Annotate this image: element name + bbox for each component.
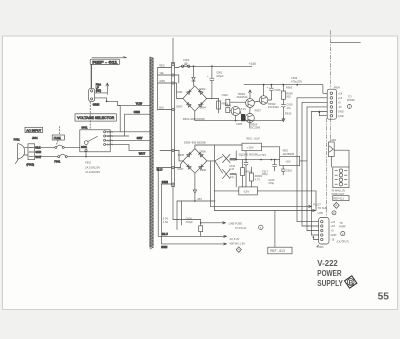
svg-text:GND: GND: [331, 233, 337, 237]
svg-text:D901: D901: [176, 90, 183, 94]
svg-text:AC 6.3V: AC 6.3V: [230, 237, 240, 241]
regulator +5V: [280, 149, 300, 166]
svg-text:2A: 2A: [184, 61, 187, 65]
svg-text:TO: TO: [339, 221, 343, 225]
svg-text:C906: C906: [274, 88, 281, 92]
svg-text:PWR UNIT: PWR UNIT: [332, 192, 345, 196]
title V-222: [317, 259, 343, 288]
svg-text:D901~904 (W02M): D901~904 (W02M): [183, 117, 205, 121]
wire below bus down: [172, 187, 174, 220]
svg-text:2SA564A: 2SA564A: [237, 95, 248, 99]
X outputs: [230, 151, 236, 159]
series regulator R901/C902: [217, 93, 229, 113]
AC plug: [18, 144, 25, 159]
svg-text:REF - 611: REF - 611: [92, 61, 117, 65]
svg-text:8.2V: 8.2V: [241, 107, 247, 111]
transistor interconnect wires: [254, 101, 259, 102]
wire YLW to transformer: [107, 101, 150, 105]
svg-text:AC INPUT: AC INPUT: [26, 128, 41, 132]
svg-text:BRN: BRN: [161, 245, 167, 249]
svg-text:+15: +15: [331, 224, 336, 228]
svg-text:+4 TP1: +4 TP1: [258, 153, 267, 157]
svg-text:R910: R910: [285, 111, 292, 115]
svg-text:BRN: BRN: [162, 180, 168, 184]
bridge1 output right: [207, 98, 219, 100]
svg-text:2SC634A: 2SC634A: [268, 105, 279, 109]
svg-text:C901: C901: [216, 70, 223, 74]
transformer T901 primary winding: [150, 57, 153, 249]
selector switch S901 box: [80, 126, 110, 152]
chassis chain line right column: [330, 118, 332, 142]
svg-text:D906: D906: [200, 149, 207, 153]
svg-text:D905~908 (W02M): D905~908 (W02M): [184, 141, 206, 145]
svg-text:R906: R906: [225, 103, 232, 107]
heater feed wires right: [211, 205, 312, 207]
svg-text:TO SUB: TO SUB: [318, 206, 328, 210]
wires transformer to bridge2: [175, 151, 184, 161]
svg-text:820: 820: [286, 95, 291, 99]
dashed wire lamp to selector switch: [89, 102, 91, 130]
svg-text:F904: F904: [330, 138, 336, 142]
svg-text:YLW: YLW: [136, 102, 143, 106]
svg-text:470µ/25V: 470µ/25V: [291, 80, 302, 84]
svg-text:GND: GND: [338, 110, 344, 114]
svg-text:C902: C902: [222, 93, 229, 97]
capacitor C901: [207, 66, 224, 98]
svg-text:TO PLUG: TO PLUG: [235, 226, 246, 230]
staircase wires switch to transformer: [106, 106, 150, 132]
svg-text:400 WV 1.5A: 400 WV 1.5A: [230, 241, 246, 245]
wire plug to fuse2: [35, 156, 58, 158]
resistor R902: [226, 99, 246, 105]
riser into switch bottom: [85, 152, 87, 157]
svg-text:55: 55: [378, 292, 390, 303]
resistor R908: [281, 85, 293, 100]
svg-text:C916: C916: [286, 168, 293, 172]
svg-text:REG. +15V: REG. +15V: [246, 136, 259, 140]
extra reg labels: [229, 152, 268, 176]
svg-text:YEL: YEL: [159, 71, 164, 75]
REF-611 box: [90, 59, 119, 64]
svg-text:BLK: BLK: [159, 105, 164, 109]
circled a: [259, 225, 263, 229]
svg-text:-26V: -26V: [197, 197, 203, 201]
svg-text:V-222: V-222: [317, 259, 338, 268]
wire bundle verticals: [296, 98, 298, 222]
svg-text:FUSE: FUSE: [54, 136, 61, 140]
capacitor C910: [281, 99, 293, 117]
capacitor C912: [229, 151, 248, 187]
svg-text:2SC1096: 2SC1096: [249, 126, 260, 130]
svg-text:PILOT: PILOT: [313, 202, 321, 206]
svg-text:(PWR): (PWR): [347, 98, 355, 102]
bridge rectifier D901-D904: [176, 86, 206, 111]
wire fuse2 to transformer primary bottom: [67, 156, 150, 158]
svg-text:POWER: POWER: [317, 269, 341, 278]
extra labels: [236, 107, 261, 126]
capacitor C903 dark: [241, 114, 245, 121]
svg-text:PWR: PWR: [339, 224, 345, 228]
svg-text:47µ: 47µ: [230, 175, 235, 179]
transistor TR904: [245, 114, 260, 130]
secondary bus / connector J902: [172, 38, 175, 186]
svg-text:+24V: +24V: [249, 62, 257, 66]
VOLTAGE SELECTOR label box: [75, 114, 116, 121]
+15 bus: [230, 159, 280, 161]
note LINE FUSE: [229, 221, 247, 230]
svg-text:GRN: GRN: [93, 102, 100, 106]
note AC 6.3V: [230, 237, 246, 245]
svg-text:B: B: [349, 279, 354, 286]
svg-text:(OUTPUT): (OUTPUT): [337, 239, 350, 243]
AC INPUT label box: [25, 127, 43, 132]
svg-text:1A 220/240V: 1A 220/240V: [85, 170, 100, 174]
svg-text:(NE): (NE): [96, 89, 101, 93]
svg-text:D908: D908: [200, 168, 207, 172]
svg-text:GRY: GRY: [137, 136, 143, 140]
ground arrow: [282, 117, 285, 122]
svg-text:470µ: 470µ: [268, 181, 274, 185]
bridge rectifier D905-D908: [177, 141, 207, 174]
chassis chain line top: [330, 31, 332, 89]
P904 pin wires: [297, 98, 327, 112]
svg-text:SUPPLY: SUPPLY: [317, 279, 343, 288]
wire from REF-611 down to pilot lamp: [90, 65, 92, 89]
P904 pin labels: [338, 91, 355, 117]
svg-text:+24: +24: [331, 220, 336, 224]
REF-613 box: [268, 211, 292, 254]
fuse F901b: [54, 154, 67, 163]
svg-text:P904: P904: [334, 85, 341, 89]
svg-text:AN78M05: AN78M05: [283, 152, 295, 156]
fuse F902: [173, 220, 203, 237]
svg-text:D904: D904: [200, 105, 207, 109]
svg-text:P: P: [335, 204, 337, 208]
wires fuse to battery: [331, 150, 349, 167]
C924 label: [286, 76, 302, 89]
capacitor C913: [230, 172, 237, 179]
svg-text:2A 100/120V: 2A 100/120V: [85, 165, 100, 169]
+15 out wire: [262, 147, 280, 157]
leader arrow from REF-611: [92, 57, 127, 58]
battery note: [332, 189, 346, 196]
bridge1 bottom + label: [194, 111, 196, 116]
battery holder: [333, 167, 349, 188]
node dot: [106, 101, 108, 103]
ground jog to pin6: [319, 111, 327, 116]
svg-text:+5V: +5V: [285, 160, 290, 164]
svg-text:+15V: +15V: [247, 146, 254, 150]
svg-text:WHT: WHT: [139, 152, 146, 156]
svg-text:H: H: [238, 249, 240, 252]
zener ZD901: [250, 167, 263, 187]
node on rail: [193, 65, 195, 67]
svg-text:470µF: 470µF: [185, 220, 193, 224]
transistor TR902: [259, 96, 279, 109]
svg-text:D903: D903: [176, 105, 183, 109]
svg-text:RED: RED: [159, 63, 165, 67]
tap color labels: [159, 63, 165, 109]
svg-text:-15V: -15V: [243, 190, 249, 194]
svg-text:GRN: GRN: [35, 150, 41, 154]
svg-text:D902: D902: [199, 87, 206, 91]
svg-text:J904: J904: [32, 136, 38, 140]
svg-text:TO: TO: [348, 95, 352, 99]
svg-text:0.47: 0.47: [229, 167, 235, 171]
svg-text:BLU: BLU: [162, 232, 168, 236]
regulator +15V: [242, 136, 262, 150]
svg-text:LINE FUSE: LINE FUSE: [229, 221, 243, 225]
page sheet: [3, 36, 398, 310]
-15V reg wires: [214, 191, 316, 211]
pilot feed labels: [313, 202, 327, 214]
svg-text:100µF: 100µF: [216, 74, 224, 78]
wire BLU down to heater line: [158, 168, 226, 238]
transformer secondary left line: [157, 68, 159, 111]
circled b: [332, 211, 336, 215]
wire plug to fuse1: [35, 146, 55, 148]
svg-text:100µ: 100µ: [262, 172, 268, 176]
svg-text:+15: +15: [338, 96, 343, 100]
svg-text:ORN: ORN: [159, 79, 165, 83]
F901 rating note: [85, 161, 100, 175]
connector P904: [327, 85, 340, 119]
wire lamp to node: [95, 98, 107, 101]
svg-text:GND: GND: [338, 114, 344, 118]
pilot lamp PL901: [89, 83, 102, 102]
svg-text:ORN: ORN: [134, 110, 140, 114]
transistor TR901: [237, 92, 255, 107]
wire fuse1 to switch: [64, 146, 80, 148]
FUSE label box: [52, 127, 64, 145]
capacitor C915: [268, 160, 276, 186]
svg-text:R905: R905: [286, 86, 293, 90]
fuse F903 on rail: [181, 58, 190, 68]
resistor R903: [226, 108, 231, 113]
transistor TR903: [225, 103, 240, 115]
fuse F904: [328, 138, 336, 157]
circled 1: [347, 105, 351, 109]
regulator -15V: [239, 187, 258, 195]
capacitor C916: [281, 166, 292, 175]
resistor R912: [241, 160, 253, 187]
svg-text:6.3V: 6.3V: [163, 216, 169, 220]
svg-text:HTR: HTR: [318, 211, 323, 215]
tap labels: [107, 130, 113, 147]
small diamond mark: [236, 247, 241, 253]
wire crossover X2: [223, 169, 231, 178]
wire transformer to bridge1: [175, 83, 183, 99]
svg-text:REF-612: REF-612: [334, 197, 345, 201]
svg-text:4.7V: 4.7V: [255, 177, 261, 181]
P905 pin labels: [331, 220, 350, 244]
lower taps: [156, 151, 171, 185]
circled 2: [341, 232, 345, 236]
diode D900: [192, 66, 195, 86]
fuse F901a: [55, 145, 64, 148]
svg-text:REF - 613: REF - 613: [270, 249, 285, 253]
rail outline verticals: [211, 145, 215, 211]
+B arrow: [95, 83, 109, 95]
svg-text:47µ: 47µ: [286, 106, 291, 110]
svg-text:1.5A: 1.5A: [163, 220, 169, 224]
svg-text:R907: R907: [255, 108, 262, 112]
arrow line fuse to plug: [201, 222, 226, 224]
connector P905: [317, 218, 329, 250]
svg-text:F901: F901: [85, 161, 91, 165]
svg-text:C924: C924: [291, 76, 298, 80]
REF-612 box: [333, 196, 349, 201]
svg-text:BLU: BLU: [157, 168, 163, 172]
wire crossover X1: [223, 154, 231, 162]
-26V wire: [177, 173, 215, 201]
svg-text:S901: S901: [81, 145, 88, 149]
connector J904 block: [26, 144, 41, 167]
P905 pin wires: [297, 222, 319, 235]
svg-text:-15: -15: [338, 105, 342, 109]
svg-text:+24: +24: [338, 91, 343, 95]
svg-text:F901: F901: [54, 159, 60, 163]
+B rail from transformer: [175, 66, 253, 67]
svg-text:C914: C914: [185, 217, 192, 221]
svg-text:VOLTAGE SELECTOR: VOLTAGE SELECTOR: [77, 116, 115, 120]
capacitor C906: [267, 85, 281, 95]
svg-text:(P902): (P902): [26, 162, 34, 166]
svg-text:P901: P901: [14, 137, 21, 141]
bridge2 right to crossover: [207, 157, 223, 174]
bridge2 top to +15 regulator: [195, 145, 242, 149]
plug prongs: [24, 148, 28, 155]
svg-text:-15: -15: [331, 238, 335, 242]
wire BRN down to heater line: [161, 184, 226, 245]
svg-text:C912: C912: [229, 158, 236, 162]
diamond mark: [333, 202, 339, 208]
+24V rail to connector: [244, 85, 327, 94]
secondary tap stubs: [158, 68, 172, 110]
note 6.3V: [163, 216, 193, 224]
logo diamond: [343, 275, 358, 290]
ground rail under transistors: [195, 116, 284, 120]
svg-text:S901: S901: [81, 126, 88, 130]
svg-text:C905: C905: [236, 122, 243, 126]
wire top right: [331, 42, 361, 44]
